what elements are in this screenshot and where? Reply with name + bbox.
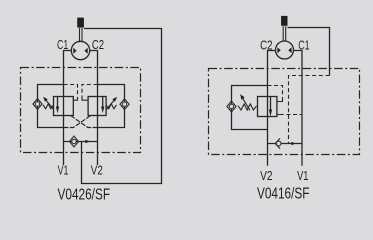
wire: cross pilot 2 (dashed) bbox=[71, 116, 98, 128]
wire: drain from shaft bbox=[288, 28, 330, 76]
pilot line right (dashed) bbox=[82, 85, 98, 99]
relief valve square bbox=[258, 97, 277, 117]
wire: drain dashed to pilot bbox=[289, 76, 330, 144]
motor M2 left port triangle bbox=[277, 47, 280, 53]
flow arrow on bottom line bbox=[85, 140, 90, 143]
flow arrow on bottom line bbox=[291, 142, 296, 145]
motor M1 circle bbox=[71, 41, 89, 59]
svg-text:C1: C1 bbox=[57, 38, 68, 52]
adjustment arrow bbox=[242, 97, 250, 110]
relief valve right square bbox=[88, 97, 106, 116]
svg-text:V2: V2 bbox=[260, 168, 272, 183]
wire: left check loop bbox=[38, 85, 64, 128]
svg-text:C2: C2 bbox=[92, 38, 104, 52]
spring right bbox=[106, 104, 116, 109]
motor M1 left port triangle bbox=[73, 48, 76, 54]
pilot line left (dashed) bbox=[64, 85, 78, 99]
check valve bottom (seat + ball) bbox=[276, 141, 281, 146]
svg-text:V1: V1 bbox=[58, 164, 69, 178]
check valve (diamond) bbox=[227, 101, 236, 112]
check valve right (diamond) bbox=[120, 99, 129, 110]
valve body border (dash-dot box) bbox=[209, 69, 360, 155]
wire: C1 line (right) bbox=[294, 51, 303, 166]
motor M1 right port triangle bbox=[84, 48, 87, 54]
svg-text:C1: C1 bbox=[298, 38, 309, 53]
motor M2 circle bbox=[276, 41, 294, 59]
svg-text:V0426/SF: V0426/SF bbox=[58, 187, 111, 203]
motor M2 right port triangle bbox=[288, 47, 291, 53]
check valve bottom (diamond) bbox=[70, 136, 79, 147]
motor M1 shaft bbox=[77, 18, 84, 28]
spring bbox=[238, 104, 257, 110]
wire: C2 line (right) bbox=[90, 51, 98, 166]
wire: drain loop from shaft to bottom bbox=[82, 29, 162, 184]
svg-text:C2: C2 bbox=[260, 38, 272, 53]
svg-text:V2: V2 bbox=[91, 164, 103, 178]
wire: bottom check line bbox=[268, 143, 303, 145]
wire: C1 line (left) bbox=[64, 51, 72, 166]
pilot tap from V2 (dashed) bbox=[268, 86, 283, 100]
valve body border (dash-dot box) bbox=[21, 68, 141, 153]
check valve left (diamond) bbox=[33, 99, 42, 110]
wire: check loop bbox=[232, 86, 268, 130]
relief valve left square bbox=[54, 97, 74, 116]
svg-text:V0416/SF: V0416/SF bbox=[257, 185, 310, 202]
adjustment arrow right bbox=[106, 99, 115, 109]
pilot line from C1 (dashed) bbox=[277, 114, 280, 116]
wire: right check loop bbox=[98, 85, 125, 128]
wire: cross pilot 1 (dashed) bbox=[64, 116, 91, 128]
adjustment arrow left bbox=[45, 99, 54, 109]
spring left bbox=[43, 104, 54, 109]
motor M2 shaft bbox=[281, 16, 287, 26]
wire: C2 line (left) bbox=[268, 51, 276, 166]
svg-text:V1: V1 bbox=[297, 168, 308, 183]
wire: bottom check line bbox=[64, 141, 98, 143]
